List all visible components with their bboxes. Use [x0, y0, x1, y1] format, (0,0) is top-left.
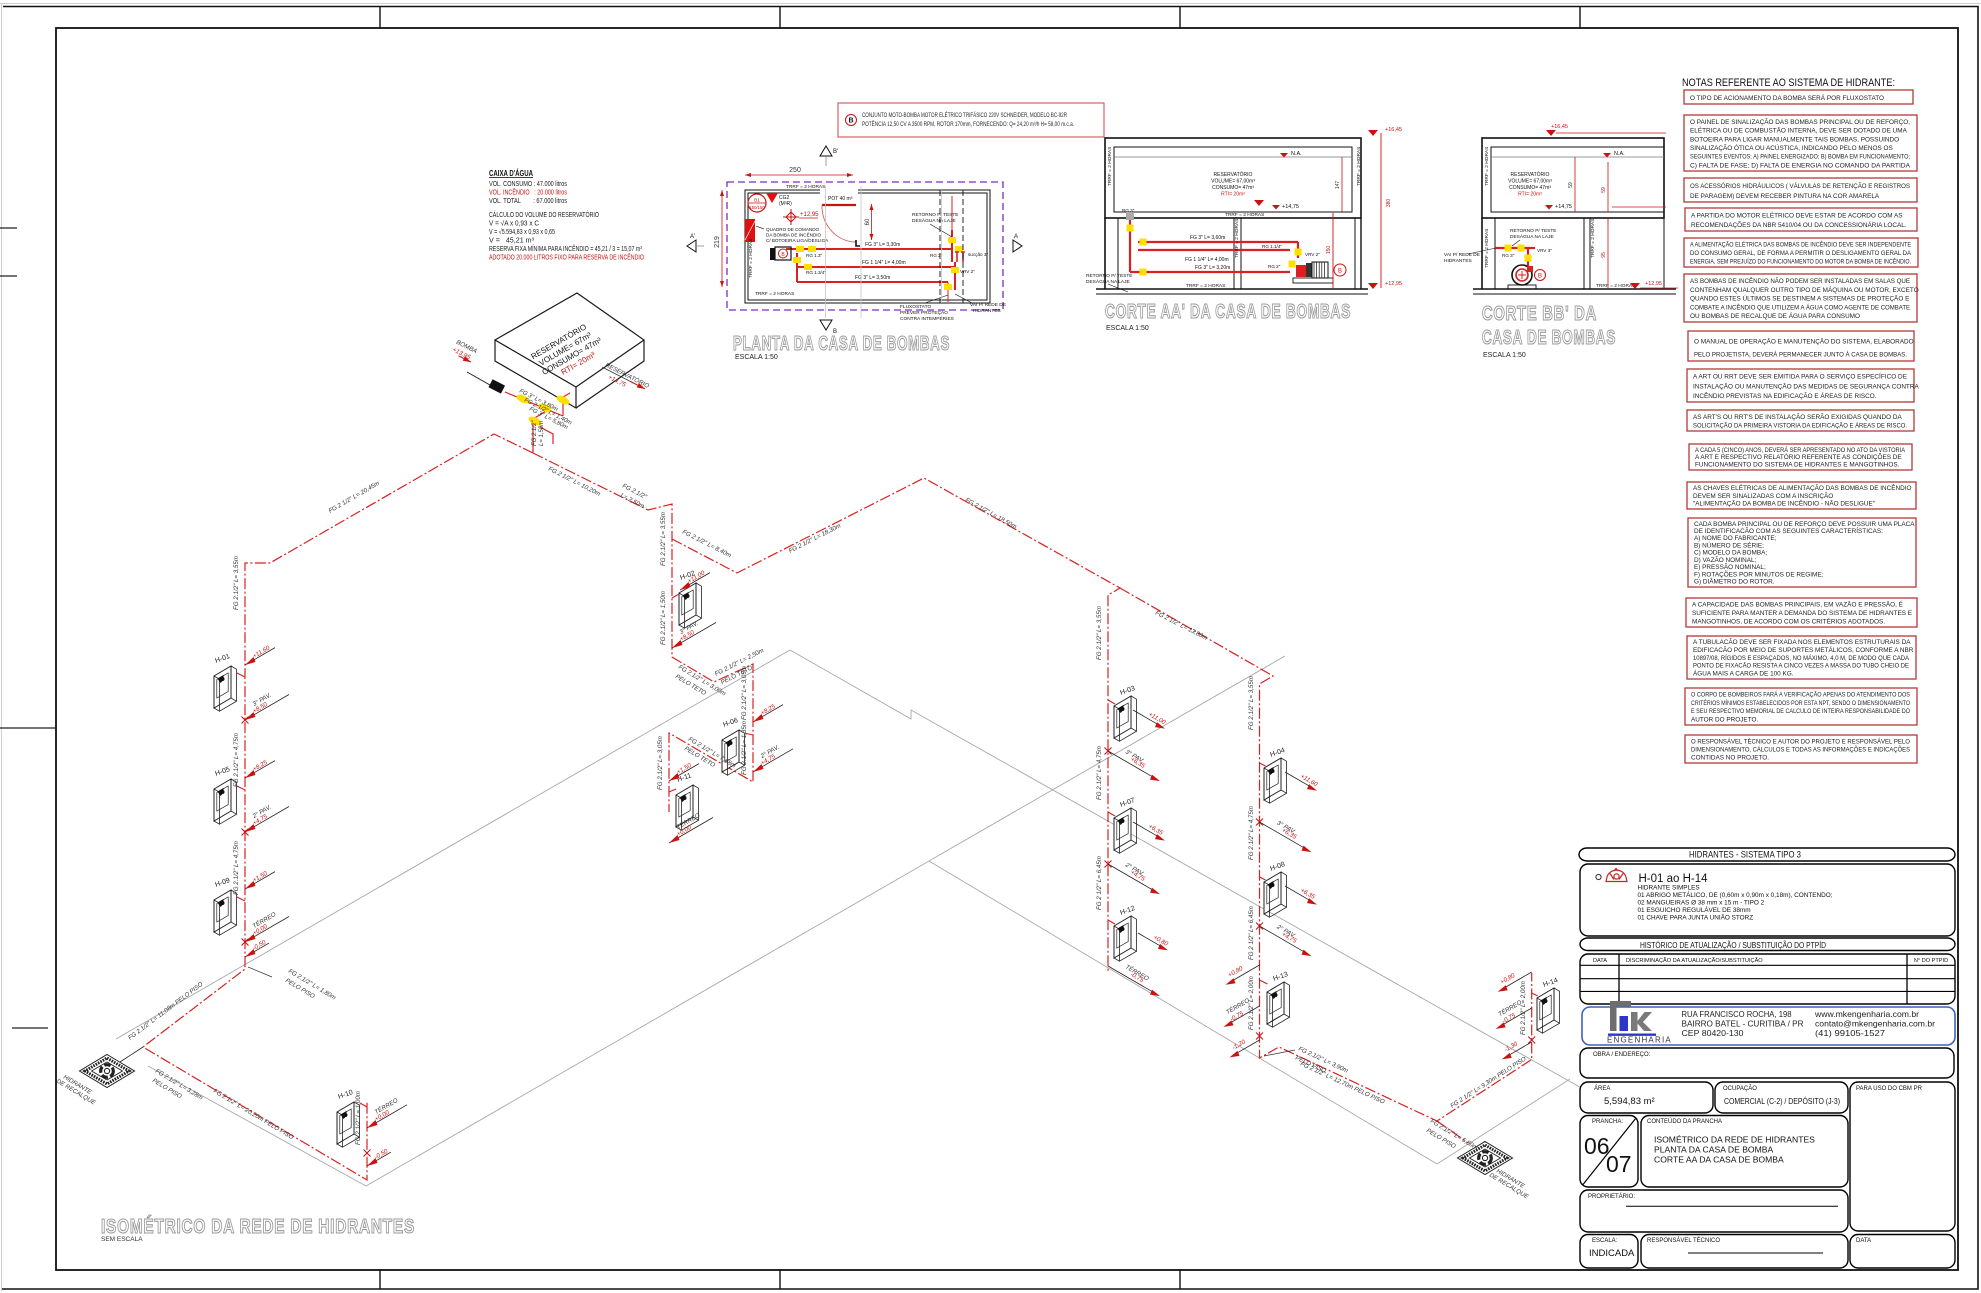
svg-text:02 MANGUEIRAS Ø 38 mm x 15 m -: 02 MANGUEIRAS Ø 38 mm x 15 m - TIPO 2 — [1638, 900, 1765, 907]
svg-text:B: B — [848, 118, 853, 125]
svg-text:www.mkengenharia.com.br: www.mkengenharia.com.br — [1814, 1009, 1919, 1019]
svg-text:COMERCIAL (C-2) / DEPÓSITO (J-: COMERCIAL (C-2) / DEPÓSITO (J-3) — [1724, 1096, 1840, 1106]
svg-text:A CADA 5 (CINCO) ANOS, DEVERÁ: A CADA 5 (CINCO) ANOS, DEVERÁ SER APRESE… — [1695, 445, 1906, 454]
svg-text:DISCRIMINAÇÃO DA ATUALIZAÇÃO/S: DISCRIMINAÇÃO DA ATUALIZAÇÃO/SUBSTITUIÇÃ… — [1626, 957, 1763, 964]
svg-text:CADA BOMBA PRINCIPAL OU DE REF: CADA BOMBA PRINCIPAL OU DE REFORÇO DEVE … — [1694, 521, 1915, 528]
svg-text:PONTO DE FIXACÃO RESISTA A CIN: PONTO DE FIXACÃO RESISTA A CINCO VEZES A… — [1693, 661, 1909, 670]
svg-text:FG 3" L= 3,50m: FG 3" L= 3,50m — [855, 275, 890, 281]
svg-text:CONTIDAS NO PROJETO.: CONTIDAS NO PROJETO. — [1691, 754, 1769, 761]
svg-text:N.A.: N.A. — [1291, 151, 1302, 157]
svg-text:+14,75: +14,75 — [1282, 204, 1299, 210]
svg-text:ESCALA:: ESCALA: — [1592, 1238, 1618, 1244]
svg-text:59: 59 — [1601, 187, 1607, 193]
svg-text:PLANTA DA CASA DE BOMBAS: PLANTA DA CASA DE BOMBAS — [733, 333, 950, 355]
svg-text:A) NOME DO FABRICANTE;: A) NOME DO FABRICANTE; — [1694, 535, 1777, 542]
svg-text:D) VAZÃO NOMINAL;: D) VAZÃO NOMINAL; — [1694, 555, 1757, 564]
svg-text:V = √A x 0,93 x C: V = √A x 0,93 x C — [489, 220, 539, 228]
svg-text:DE IDENTIFICACÃO COM AS SEGUIN: DE IDENTIFICACÃO COM AS SEGUINTES CARACT… — [1694, 526, 1883, 535]
svg-text:PELO PROJETISTA, DEVERÁ PERMAN: PELO PROJETISTA, DEVERÁ PERMANECER JUNTO… — [1694, 349, 1907, 358]
svg-text:HIDRANTES: HIDRANTES — [973, 308, 1001, 314]
svg-text:FG 2.1/2" L= 4,75m: FG 2.1/2" L= 4,75m — [233, 733, 240, 787]
svg-text:ISOMÉTRICO DA REDE DE HIDRANTE: ISOMÉTRICO DA REDE DE HIDRANTES — [1654, 1135, 1815, 1145]
svg-text:contato@mkengenharia.com.br: contato@mkengenharia.com.br — [1815, 1019, 1935, 1029]
svg-text:VOL. CONSUMO : 47.000 litros: VOL. CONSUMO : 47.000 litros — [489, 181, 567, 188]
svg-text:FG 2.1/2" L= 1,35m: FG 2.1/2" L= 1,35m — [741, 721, 748, 775]
svg-text:+12,95: +12,95 — [800, 212, 819, 218]
svg-text:FG 2.1/2" L= 3,55m: FG 2.1/2" L= 3,55m — [1096, 606, 1103, 660]
svg-text:B': B' — [833, 149, 838, 155]
svg-text:CÁLCULO DO VOLUME DO RESERVATÓ: CÁLCULO DO VOLUME DO RESERVATÓRIO — [489, 210, 599, 219]
svg-text:TRRF = 2 HORAS: TRRF = 2 HORAS — [1356, 147, 1362, 186]
svg-text:250: 250 — [789, 167, 801, 174]
svg-text:150/150: 150/150 — [749, 205, 765, 210]
svg-text:60: 60 — [865, 218, 871, 225]
svg-text:TRRF = 2 HORAS: TRRF = 2 HORAS — [755, 291, 794, 297]
svg-text:N° DO PTPID: N° DO PTPID — [1914, 958, 1948, 964]
svg-text:SINALIZAÇÃO ÓTICA OU ACÚSTICA,: SINALIZAÇÃO ÓTICA OU ACÚSTICA, INDICANDO… — [1690, 143, 1893, 152]
svg-text:POT 40 m³: POT 40 m³ — [828, 196, 853, 202]
svg-text:ELÉTRICA OU DE COMBUSTÃO INTER: ELÉTRICA OU DE COMBUSTÃO INTERNA, DEVE S… — [1690, 126, 1908, 135]
svg-text:DATA: DATA — [1593, 958, 1607, 964]
svg-text:RETORNO P/ TESTE: RETORNO P/ TESTE — [1086, 273, 1132, 279]
svg-text:HIDRANTES: HIDRANTES — [1444, 258, 1472, 264]
svg-text:POTÊNCIA 12,50 CV A 3500 RPM,: POTÊNCIA 12,50 CV A 3500 RPM, ROTOR 170m… — [862, 120, 1074, 128]
svg-text:FG 2.1/2" L= 3,55m: FG 2.1/2" L= 3,55m — [1248, 676, 1255, 730]
svg-text:RG 1.3/4": RG 1.3/4" — [806, 270, 826, 275]
svg-text:RG 3": RG 3" — [1122, 208, 1135, 213]
svg-text:ESCALA 1:50: ESCALA 1:50 — [1483, 352, 1526, 359]
svg-text:G) DIÂMETRO DO ROTOR.: G) DIÂMETRO DO ROTOR. — [1694, 577, 1775, 586]
svg-text:NOTAS REFERENTE AO SISTEMA DE: NOTAS REFERENTE AO SISTEMA DE HIDRANTE: — [1682, 77, 1895, 89]
svg-text:BAIRRO BATEL - CURITIBA / PR: BAIRRO BATEL - CURITIBA / PR — [1682, 1019, 1804, 1029]
svg-text:ESCALA 1:50: ESCALA 1:50 — [1106, 325, 1149, 332]
svg-text:CONTEÚDO DA PRANCHA: CONTEÚDO DA PRANCHA — [1647, 1118, 1722, 1125]
svg-text:219: 219 — [714, 236, 721, 248]
svg-text:A CAPACIDADE DAS BOMBAS PRINCI: A CAPACIDADE DAS BOMBAS PRINCIPAIS, EM V… — [1692, 600, 1903, 609]
svg-text:ENGENHARIA: ENGENHARIA — [1607, 1036, 1672, 1045]
svg-text:AS ART'S OU RRT'S DE INSTALAÇÃ: AS ART'S OU RRT'S DE INSTALAÇÃO SERÃO EX… — [1693, 412, 1902, 421]
svg-text:FLUXOSTATO: FLUXOSTATO — [900, 304, 931, 310]
svg-text:RESERVATÓRIO: RESERVATÓRIO — [1214, 171, 1253, 178]
svg-text:FG 2.1/2" L= 4,75m: FG 2.1/2" L= 4,75m — [1096, 746, 1103, 800]
svg-text:QUADRO DE COMANDO: QUADRO DE COMANDO — [766, 227, 820, 232]
svg-text:O RESPONSÁVEL TÉCNICO E AUTOR: O RESPONSÁVEL TÉCNICO E AUTOR DO PROJETO… — [1691, 736, 1910, 745]
svg-text:A ART E RESPECTIVO RELATÓRIO R: A ART E RESPECTIVO RELATÓRIO REFERENTE A… — [1695, 452, 1902, 461]
svg-text:OCUPAÇÃO: OCUPAÇÃO — [1723, 1085, 1757, 1092]
svg-text:CRITÉRIOS MÍNIMOS ESTABELECIDO: CRITÉRIOS MÍNIMOS ESTABELECIDOS POR ESTA… — [1691, 698, 1910, 707]
svg-text:RESPONSÁVEL TÉCNICO: RESPONSÁVEL TÉCNICO — [1647, 1237, 1720, 1244]
svg-text:RUA FRANCISCO ROCHA, 198: RUA FRANCISCO ROCHA, 198 — [1682, 1009, 1792, 1019]
svg-text:L= 1,50m: L= 1,50m — [539, 421, 545, 446]
svg-text:V = √5.594,83 x 0,93 x 0,65: V = √5.594,83 x 0,93 x 0,65 — [489, 228, 555, 236]
svg-text:VRV 2": VRV 2" — [960, 269, 975, 274]
svg-text:VAI P/ REDE DE: VAI P/ REDE DE — [970, 302, 1006, 308]
svg-text:INSTALAÇÃO OU MANUTENÇÃO DAS M: INSTALAÇÃO OU MANUTENÇÃO DAS MEDIDAS DE … — [1693, 381, 1919, 390]
svg-text:150: 150 — [1326, 246, 1332, 255]
svg-text:07: 07 — [1606, 1151, 1632, 1177]
svg-text:59: 59 — [1568, 182, 1574, 188]
svg-text:RG 2": RG 2" — [930, 253, 943, 258]
svg-text:E) PRESSÃO NOMINAL;: E) PRESSÃO NOMINAL; — [1694, 562, 1766, 571]
svg-text:DATA: DATA — [1856, 1238, 1871, 1244]
svg-text:DESÁGUA NA LAJE: DESÁGUA NA LAJE — [1086, 278, 1130, 285]
svg-text:O CORPO DE BOMBEIROS FARÁ A VE: O CORPO DE BOMBEIROS FARÁ A VERIFICAÇÃO … — [1691, 690, 1910, 699]
svg-text:AS CHAVES ELÉTRICAS DE ALIMENT: AS CHAVES ELÉTRICAS DE ALIMENTAÇÃO DAS B… — [1693, 483, 1912, 492]
svg-text:ISOMÉTRICO DA REDE DE HIDRANTE: ISOMÉTRICO DA REDE DE HIDRANTES — [101, 1215, 415, 1238]
svg-text:EDIFICACÃO POR MEIO DE SUPORTE: EDIFICACÃO POR MEIO DE SUPORTES METÁLICO… — [1693, 645, 1914, 654]
svg-text:TRRF = 2 HORAS: TRRF = 2 HORAS — [1590, 219, 1596, 258]
svg-text:QUANDO ESTES ÚLTIMOS SE DESTIN: QUANDO ESTES ÚLTIMOS SE DESTINEM A SISTE… — [1690, 294, 1909, 303]
svg-text:VRV 3": VRV 3" — [1537, 248, 1552, 253]
svg-text:RTI= 20m³: RTI= 20m³ — [1518, 192, 1542, 198]
svg-text:RETORNO P/ TESTE: RETORNO P/ TESTE — [912, 212, 958, 218]
svg-text:RG 1.3": RG 1.3" — [806, 253, 823, 258]
svg-text:A PARTIDA DO MOTOR ELÉTRICO DE: A PARTIDA DO MOTOR ELÉTRICO DEVE ESTAR D… — [1691, 211, 1903, 220]
svg-text:TRRF = 2 HORAS: TRRF = 2 HORAS — [1225, 212, 1264, 218]
svg-text:TRRF = 2 HORAS: TRRF = 2 HORAS — [748, 239, 754, 278]
svg-text:TRRF = 2 HORAS: TRRF = 2 HORAS — [1596, 283, 1635, 289]
svg-text:V = 45,21 m³: V = 45,21 m³ — [489, 238, 535, 245]
svg-text:A ALIMENTAÇÃO ELÉTRICA DAS BOM: A ALIMENTAÇÃO ELÉTRICA DAS BOMBAS DE INC… — [1690, 240, 1911, 249]
svg-text:B: B — [1338, 269, 1342, 275]
svg-text:ADOTADO 20.000 LITROS FIXO PAR: ADOTADO 20.000 LITROS FIXO PARA RESERVA … — [489, 253, 644, 262]
svg-text:CORTE AA DA CASA DE BOMBA: CORTE AA DA CASA DE BOMBA — [1654, 1155, 1784, 1165]
svg-text:RG 1.1/4": RG 1.1/4" — [1262, 244, 1282, 249]
svg-text:SUFICIENTE PARA MANTER A DEMAN: SUFICIENTE PARA MANTER A DEMANDA DO SIST… — [1692, 610, 1912, 617]
svg-text:VOLUME= 67,00m³: VOLUME= 67,00m³ — [1508, 179, 1552, 185]
svg-text:FUNCIONAMENTO DO SISTEMA DE HI: FUNCIONAMENTO DO SISTEMA DE HIDRANTES E … — [1695, 462, 1900, 469]
svg-text:380: 380 — [1386, 199, 1392, 208]
svg-text:A ART OU RRT DEVE SER EMITIDA: A ART OU RRT DEVE SER EMITIDA PARA O SER… — [1693, 372, 1907, 381]
svg-text:O TIPO DE ACIONAMENTO DA BOMBA: O TIPO DE ACIONAMENTO DA BOMBA SERÁ POR … — [1690, 93, 1884, 102]
svg-text:INDICADA: INDICADA — [1589, 1248, 1635, 1259]
svg-text:DO CONSUMO GERAL, DE FORMA A P: DO CONSUMO GERAL, DE FORMA A PERMITIR O … — [1690, 250, 1912, 257]
svg-text:FG 2.1/2": FG 2.1/2" — [532, 420, 538, 446]
svg-text:FG 2.1/2" L= 1,50m: FG 2.1/2" L= 1,50m — [660, 591, 667, 645]
svg-text:10897/08, RÍGIDOS E ESPAÇADOS,: 10897/08, RÍGIDOS E ESPAÇADOS, NO MÁXIMO… — [1693, 653, 1910, 662]
svg-text:VOL. TOTAL : 67.000 lit: VOL. TOTAL : 67.000 litros — [489, 198, 567, 205]
svg-text:ÁREA: ÁREA — [1594, 1085, 1610, 1092]
svg-text:H-01 ao H-14: H-01 ao H-14 — [1639, 873, 1709, 885]
svg-text:ÁGUA MAIS A CARGA DE 100 KG.: ÁGUA MAIS A CARGA DE 100 KG. — [1693, 668, 1794, 677]
svg-text:DESÁGUA NA LAJE: DESÁGUA NA LAJE — [1510, 233, 1554, 240]
svg-text:CONTRA INTEMPÉRIES: CONTRA INTEMPÉRIES — [900, 315, 954, 322]
svg-text:CONSUMO= 47m³: CONSUMO= 47m³ — [1509, 185, 1551, 191]
svg-text:FG 2.1/2" L= 4,75m: FG 2.1/2" L= 4,75m — [233, 841, 240, 895]
svg-text:N.A.: N.A. — [1614, 151, 1625, 157]
svg-text:FG 2.1/2" L= 1,00m: FG 2.1/2" L= 1,00m — [355, 1091, 362, 1145]
svg-text:FG 2 1/2" L= 6,45m: FG 2 1/2" L= 6,45m — [1248, 906, 1255, 960]
svg-text:HIDRANTES - SISTEMA TIPO 3: HIDRANTES - SISTEMA TIPO 3 — [1689, 850, 1801, 860]
svg-text:HISTÓRICO DE ATUALIZAÇÃO / SUB: HISTÓRICO DE ATUALIZAÇÃO / SUBSTITUIÇÃO … — [1640, 941, 1826, 950]
svg-text:HIDRANTE SIMPLES: HIDRANTE SIMPLES — [1638, 885, 1700, 892]
svg-text:TRRF = 2 HORAS: TRRF = 2 HORAS — [1234, 219, 1240, 258]
svg-text:FG 3" L= 3,30m: FG 3" L= 3,30m — [865, 242, 900, 248]
svg-text:SOLICITAÇÃO DA PRIMEIRA VISTOR: SOLICITAÇÃO DA PRIMEIRA VISTORIA DA EDIF… — [1693, 420, 1907, 429]
svg-text:OS ACESSÓRIOS HIDRÁULICOS ( VÁ: OS ACESSÓRIOS HIDRÁULICOS ( VÁLVULAS DE … — [1690, 181, 1910, 190]
svg-text:ESCALA 1:50: ESCALA 1:50 — [735, 354, 778, 361]
svg-text:FG 2 1/2" L= 6,45m: FG 2 1/2" L= 6,45m — [1096, 856, 1103, 910]
svg-text:FG 2.1/2" L= 3,05m: FG 2.1/2" L= 3,05m — [657, 736, 664, 790]
svg-text:AS BOMBAS DE INCÊNDIO NÃO PODE: AS BOMBAS DE INCÊNDIO NÃO PODEM SER INST… — [1690, 276, 1910, 285]
svg-text:A TUBULACÃO DEVE SER FIXADA NO: A TUBULACÃO DEVE SER FIXADA NOS ELEMENTO… — [1693, 637, 1911, 646]
svg-text:MANGOTINHOS, DE ACORDO COM OS: MANGOTINHOS, DE ACORDO COM OS CRITÉRIOS … — [1692, 616, 1885, 625]
svg-text:FG 3" L= 3,60m: FG 3" L= 3,60m — [1190, 235, 1225, 241]
svg-text:PREVER PROTEÇÃO: PREVER PROTEÇÃO — [900, 309, 948, 316]
svg-text:DIMENSIONAMENTO, CÁLCULOS E TO: DIMENSIONAMENTO, CÁLCULOS E TODAS AS INF… — [1691, 744, 1910, 753]
svg-text:01 ABRIGO METÁLICO, DE (0,60m: 01 ABRIGO METÁLICO, DE (0,60m x 0,90m x … — [1638, 890, 1833, 899]
svg-text:O MANUAL DE OPERAÇÃO E MANUTEN: O MANUAL DE OPERAÇÃO E MANUTENÇÃO DO SIS… — [1694, 336, 1914, 345]
svg-text:RETORNO P/ TESTE: RETORNO P/ TESTE — [1510, 228, 1556, 234]
svg-text:OU BOMBAS DE RECALQUE DE ÁGUA: OU BOMBAS DE RECALQUE DE ÁGUA PARA CONSU… — [1690, 311, 1860, 320]
svg-text:CASA DE BOMBAS: CASA DE BOMBAS — [1482, 327, 1616, 349]
svg-text:B) NÚMERO DE SÉRIE;: B) NÚMERO DE SÉRIE; — [1694, 540, 1764, 549]
svg-text:+14,75: +14,75 — [1555, 204, 1572, 210]
svg-text:RTI= 20m³: RTI= 20m³ — [1221, 192, 1245, 198]
svg-text:RG 3": RG 3" — [1502, 253, 1515, 258]
svg-text:FG 1 1/4" L= 4,00m: FG 1 1/4" L= 4,00m — [1185, 257, 1229, 263]
svg-text:CONSUMO= 47m³: CONSUMO= 47m³ — [1212, 185, 1254, 191]
svg-text:PLANTA DA CASA DE BOMBA: PLANTA DA CASA DE BOMBA — [1654, 1145, 1774, 1155]
svg-text:FG 2.1/2" L= 4,75m: FG 2.1/2" L= 4,75m — [1248, 806, 1255, 860]
svg-text:01 CHAVE PARA JUNTA UNIÃO STOR: 01 CHAVE PARA JUNTA UNIÃO STORZ — [1638, 913, 1754, 922]
svg-text:RESERVA FIXA MÍNIMA PARA INCÊN: RESERVA FIXA MÍNIMA PARA INCÊNDIO = 45,2… — [489, 244, 643, 253]
svg-text:FG 2.1/2" L= 2,00m: FG 2.1/2" L= 2,00m — [1248, 976, 1255, 1030]
svg-text:ENERGIA, SEM PREJUÍZO DO FUNCI: ENERGIA, SEM PREJUÍZO DO FUNCIONAMENTO D… — [1690, 256, 1911, 265]
svg-text:sucção 3": sucção 3" — [968, 252, 988, 257]
svg-text:FG 1 1/4" L= 4,00m: FG 1 1/4" L= 4,00m — [862, 260, 906, 266]
svg-text:CORTE AA' DA CASA DE BOMBAS: CORTE AA' DA CASA DE BOMBAS — [1105, 301, 1351, 323]
svg-text:TRRF = 2 HORAS: TRRF = 2 HORAS — [786, 184, 825, 190]
svg-text:RESERVATÓRIO: RESERVATÓRIO — [1511, 171, 1550, 178]
svg-text:PROPRIETÁRIO:: PROPRIETÁRIO: — [1588, 1193, 1635, 1200]
svg-text:RG 2": RG 2" — [1268, 264, 1281, 269]
svg-text:DESÁGUA NA LAJE: DESÁGUA NA LAJE — [912, 217, 956, 224]
svg-text:C/ BOTOEIRA LIGA/DESLIGA: C/ BOTOEIRA LIGA/DESLIGA — [766, 238, 829, 243]
svg-text:DE PARAGEM) DEVEM RECEBER PIN: DE PARAGEM) DEVEM RECEBER PINTURA NA COR… — [1690, 193, 1880, 200]
svg-text:FG 3" L= 3,20m: FG 3" L= 3,20m — [1195, 265, 1230, 271]
svg-text:PRANCHA:: PRANCHA: — [1592, 1119, 1623, 1125]
svg-text:+16,45: +16,45 — [1385, 127, 1402, 133]
svg-text:A': A' — [690, 234, 695, 240]
svg-text:A: A — [1014, 234, 1018, 240]
svg-text:CAIXA D'ÁGUA: CAIXA D'ÁGUA — [489, 169, 533, 178]
svg-text:"ALIMENTAÇÃO DA BOMBA DE INCÊN: "ALIMENTAÇÃO DA BOMBA DE INCÊNDIO - NÃO … — [1693, 499, 1875, 508]
svg-text:147: 147 — [1335, 181, 1341, 190]
svg-text:(M³R): (M³R) — [779, 201, 792, 207]
svg-text:VOL. INCÊNDIO : 20.000 litro: VOL. INCÊNDIO : 20.000 litros — [489, 188, 567, 197]
svg-text:TRRF = 2 HORAS: TRRF = 2 HORAS — [1107, 147, 1113, 186]
svg-text:F) ROTAÇÕES POR MINUTOS DE: F) ROTAÇÕES POR MINUTOS DE REGIME; — [1694, 569, 1824, 578]
svg-text:C) MODELO DA BOMBA;: C) MODELO DA BOMBA; — [1694, 550, 1767, 557]
svg-text:DA BOMBA DE INCÊNDIO: DA BOMBA DE INCÊNDIO — [766, 231, 822, 238]
svg-text:TRRF = 2 HORAS: TRRF = 2 HORAS — [1484, 229, 1490, 268]
svg-text:95: 95 — [1601, 252, 1607, 258]
svg-text:5,594,83 m²: 5,594,83 m² — [1604, 1096, 1655, 1107]
svg-text:SEM ESCALA: SEM ESCALA — [101, 1236, 143, 1243]
svg-text:VRV 2": VRV 2" — [1305, 252, 1320, 257]
svg-text:PARA USO DO CBM PR: PARA USO DO CBM PR — [1856, 1086, 1923, 1092]
svg-text:VOLUME= 67,00m³: VOLUME= 67,00m³ — [1211, 179, 1255, 185]
svg-text:FG 2.1/2" L= 2,00m: FG 2.1/2" L= 2,00m — [1520, 981, 1527, 1035]
svg-text:CONTENHAM QUALQUER OUTRO TIPO: CONTENHAM QUALQUER OUTRO TIPO DE MÁQUINA… — [1690, 285, 1919, 294]
svg-text:RECOMENDAÇÕES DA NBR 5410/04 O: RECOMENDAÇÕES DA NBR 5410/04 OU DA CONCE… — [1691, 220, 1907, 229]
svg-text:INCÊNDIO PREVISTAS NA EDIFICAÇ: INCÊNDIO PREVISTAS NA EDIFICAÇÃO E ÁREAS… — [1693, 391, 1877, 400]
svg-text:OBRA / ENDEREÇO:: OBRA / ENDEREÇO: — [1593, 1052, 1651, 1058]
svg-text:SEGUINTES EVENTOS; A) PAINEL E: SEGUINTES EVENTOS; A) PAINEL ENERGIZADO;… — [1690, 154, 1910, 161]
svg-text:CEP 80420-130: CEP 80420-130 — [1682, 1028, 1744, 1038]
svg-text:B: B — [1538, 274, 1542, 280]
svg-text:+16,45: +16,45 — [1551, 124, 1568, 130]
svg-text:BOTOEIRA PARA LIGAR MANUALMENT: BOTOEIRA PARA LIGAR MANUALMENTE TAIS BOM… — [1690, 136, 1899, 143]
svg-text:+12,95: +12,95 — [1385, 281, 1402, 287]
svg-text:B1: B1 — [754, 198, 760, 204]
svg-text:E SEU RESPECTIVO MEMORIAL DE C: E SEU RESPECTIVO MEMORIAL DE CALCULO DE … — [1691, 708, 1910, 715]
svg-text:TRRF = 2 HORAS: TRRF = 2 HORAS — [1186, 283, 1225, 289]
svg-text:O PAINEL DE SINALIZAÇÃO DAS BO: O PAINEL DE SINALIZAÇÃO DAS BOMBAS PRINC… — [1690, 117, 1910, 126]
svg-text:TRRF = 2 HORAS: TRRF = 2 HORAS — [1484, 147, 1490, 186]
svg-text:01 ESGUICHO REGULÁVEL DE 38mm: 01 ESGUICHO REGULÁVEL DE 38mm — [1638, 905, 1751, 914]
svg-text:(41) 99105-1527: (41) 99105-1527 — [1815, 1028, 1885, 1038]
svg-text:CORTE BB' DA: CORTE BB' DA — [1482, 303, 1597, 325]
svg-text:FG 2.1/2" L= 3,55m: FG 2.1/2" L= 3,55m — [233, 556, 240, 610]
svg-text:+12,95: +12,95 — [1645, 281, 1662, 287]
svg-text:FG 2.1/2" L= 3,55m: FG 2.1/2" L= 3,55m — [660, 512, 667, 566]
svg-text:C) FALTA DE FASE; D) FALTA DE: C) FALTA DE FASE; D) FALTA DE ENERGIA NO… — [1690, 162, 1911, 169]
svg-text:COMBATE A INCÊNDIO QUE UTILIZE: COMBATE A INCÊNDIO QUE UTILIZEM A ÁGUA C… — [1690, 302, 1910, 311]
svg-text:AUTOR DO PROJETO.: AUTOR DO PROJETO. — [1691, 716, 1758, 723]
svg-text:DEVEM SER SINALIZADAS COM A IN: DEVEM SER SINALIZADAS COM A INSCRIÇÃO — [1693, 491, 1833, 500]
svg-text:CONJUNTO MOTO-BOMBA MOTOR ELÉT: CONJUNTO MOTO-BOMBA MOTOR ELÉTRICO TRIFÁ… — [862, 112, 1067, 119]
